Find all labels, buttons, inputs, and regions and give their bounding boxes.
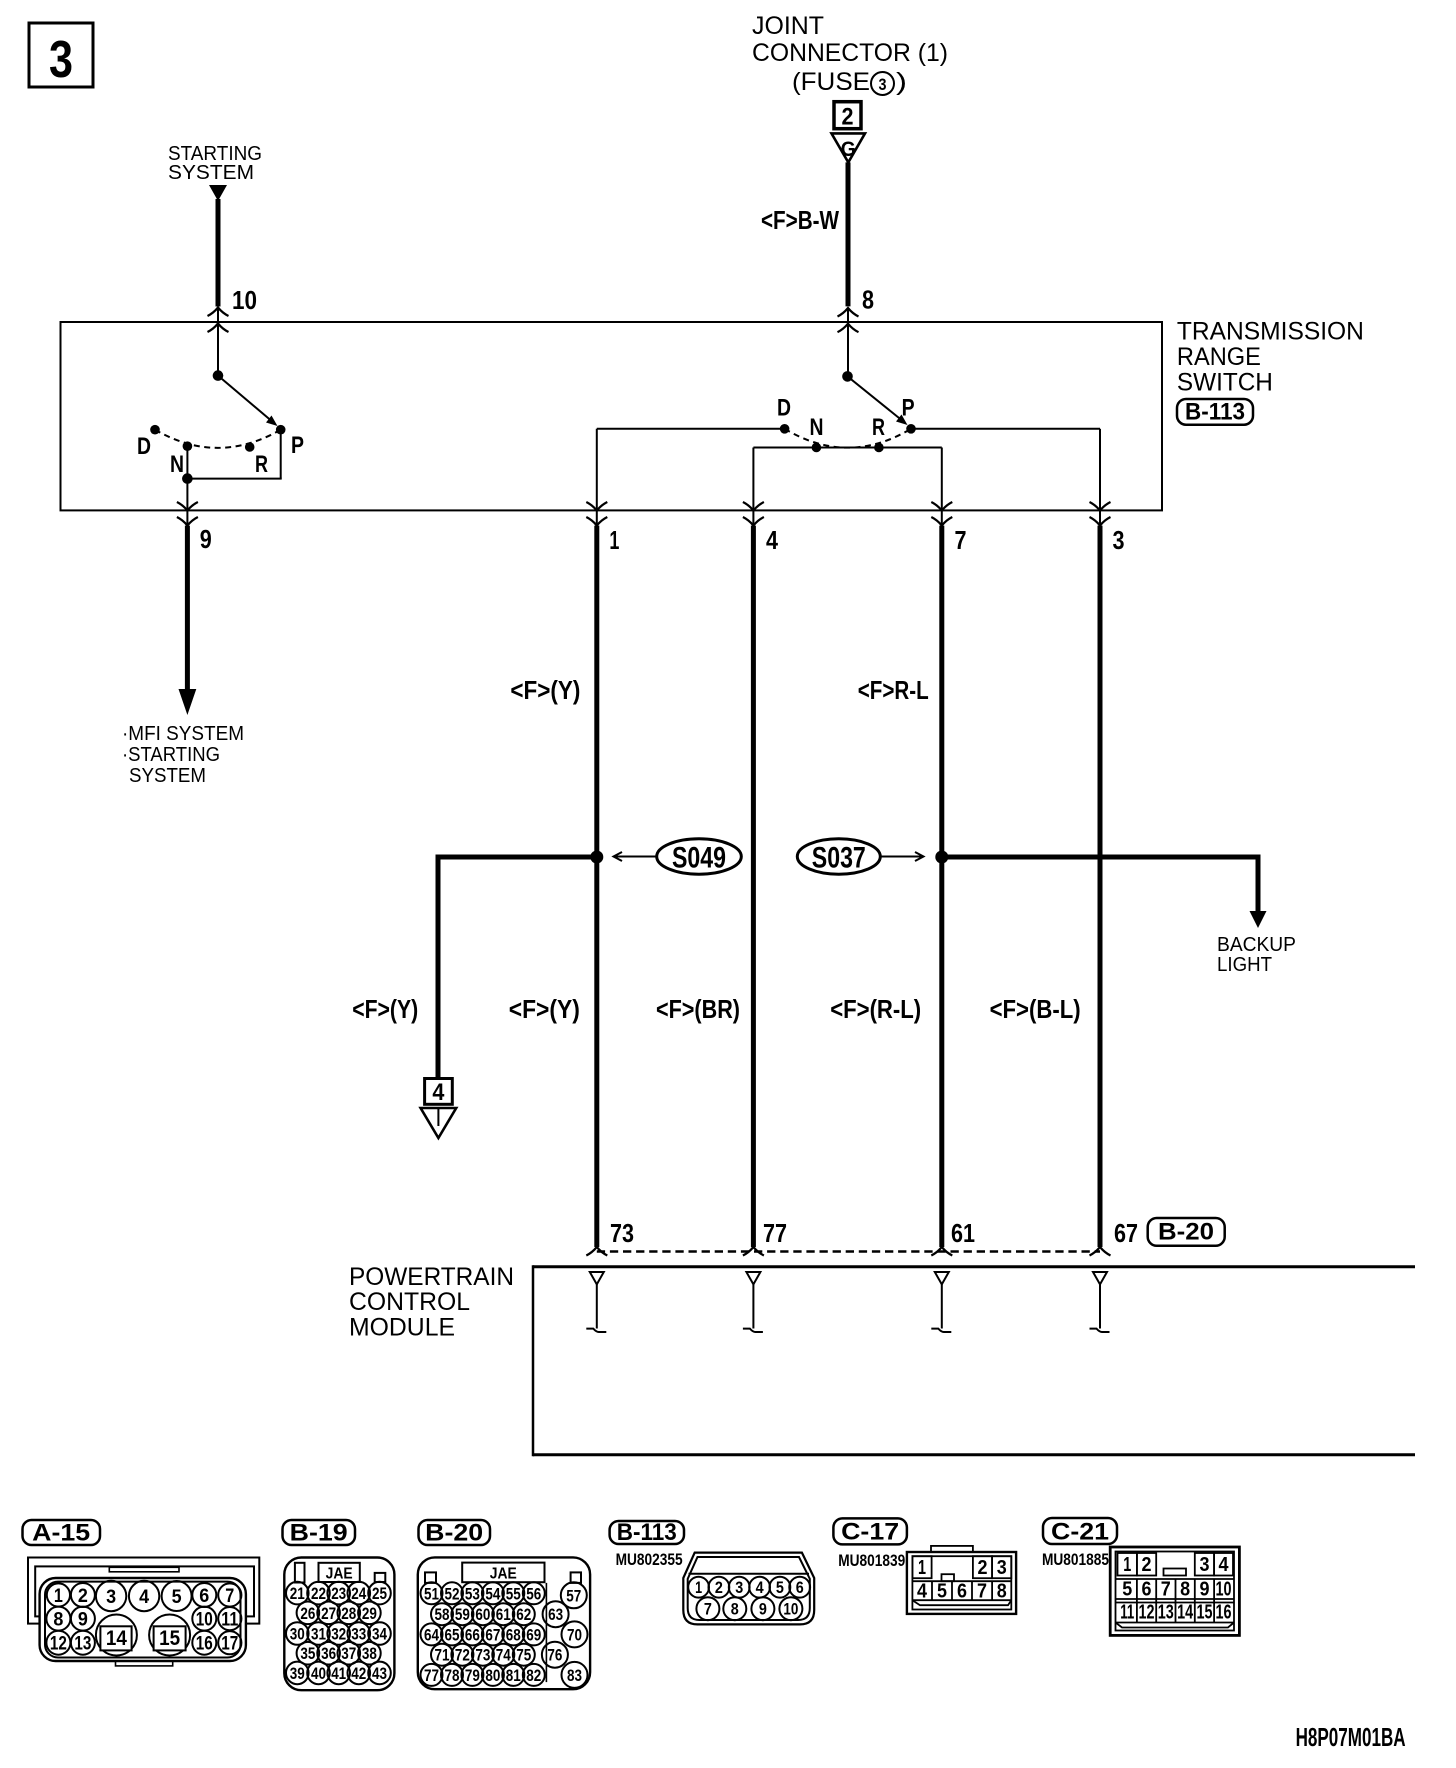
svg-text:B-19: B-19 [290, 1520, 348, 1547]
svg-text:1: 1 [1123, 1554, 1131, 1576]
A-15 pin 10 [192, 1607, 216, 1631]
svg-text:<F>(R-L): <F>(R-L) [830, 994, 921, 1024]
svg-text:8: 8 [862, 285, 874, 315]
svg-text:7: 7 [225, 1586, 234, 1607]
svg-text:2: 2 [978, 1557, 988, 1579]
svg-text:52: 52 [445, 1584, 460, 1603]
svg-text:R: R [255, 451, 268, 478]
svg-text:37: 37 [341, 1644, 356, 1663]
svg-text:15: 15 [1197, 1602, 1213, 1624]
svg-text:73: 73 [610, 1218, 634, 1248]
svg-text:3: 3 [1200, 1554, 1210, 1576]
A-15 pin 14 [96, 1615, 137, 1656]
svg-text:23: 23 [331, 1584, 346, 1603]
branch wire to backup light (thick) [942, 855, 1267, 929]
svg-text:11: 11 [221, 1609, 238, 1630]
ground symbol 4 [421, 1079, 457, 1139]
right switch: wire into switch [847, 308, 849, 376]
left switch contact P [276, 425, 286, 435]
A-15 pin 12 [46, 1631, 70, 1655]
ground triangle G [832, 133, 866, 162]
connector tag C-17 [833, 1518, 907, 1545]
wire end foot 73 [586, 1247, 607, 1256]
svg-text:4: 4 [1219, 1554, 1230, 1576]
svg-text:N: N [810, 414, 824, 441]
pin 10 terminal chevrons [208, 308, 229, 333]
svg-text:2: 2 [842, 104, 854, 131]
svg-text:·STARTING: ·STARTING [122, 744, 220, 766]
pin 4 terminal chevrons [743, 502, 764, 526]
wire P stem [280, 430, 282, 479]
left switch contact N [183, 441, 193, 451]
connector tag B-20 [419, 1520, 491, 1547]
pin 8 terminal chevrons [838, 308, 859, 332]
svg-text:<F>(B-L): <F>(B-L) [990, 994, 1081, 1024]
svg-text:3: 3 [49, 31, 73, 89]
svg-text:2: 2 [1142, 1554, 1152, 1576]
svg-text:36: 36 [321, 1644, 336, 1663]
svg-text:40: 40 [311, 1664, 326, 1683]
branch wire to ground 4 (thick) [438, 855, 597, 1079]
connector tag B-19 [283, 1520, 356, 1547]
svg-text:MU801839: MU801839 [838, 1551, 905, 1570]
svg-text:70: 70 [567, 1625, 582, 1644]
svg-text:JOINT: JOINT [752, 12, 824, 40]
svg-text:59: 59 [455, 1605, 470, 1624]
svg-text:3: 3 [106, 1587, 116, 1608]
node STARTING SYSTEM (label) [168, 143, 262, 184]
svg-text:7: 7 [955, 525, 967, 555]
svg-text:MU801885: MU801885 [1042, 1550, 1109, 1569]
pin 3 terminal chevrons [1090, 502, 1111, 526]
svg-text:MU802355: MU802355 [616, 1550, 683, 1569]
svg-text:31: 31 [311, 1625, 326, 1644]
svg-text:29: 29 [362, 1604, 377, 1623]
pin 9 terminal chevrons [177, 502, 198, 526]
svg-text:57: 57 [566, 1586, 581, 1605]
B-20 pin 63 [543, 1601, 569, 1627]
svg-text:5: 5 [1122, 1579, 1132, 1601]
svg-text:<F>(BR): <F>(BR) [656, 994, 740, 1024]
svg-text:8: 8 [1180, 1579, 1190, 1601]
svg-text:64: 64 [424, 1625, 439, 1644]
svg-text:24: 24 [351, 1584, 366, 1603]
svg-text:B-20: B-20 [1158, 1219, 1214, 1246]
right switch dashed arc [785, 429, 911, 448]
svg-text:BACKUP: BACKUP [1217, 934, 1296, 956]
connector tag A-15 [23, 1520, 101, 1547]
connector C-21 view [1110, 1547, 1239, 1635]
svg-text:7: 7 [704, 1600, 712, 1619]
svg-text:5: 5 [172, 1587, 182, 1608]
svg-text:1: 1 [609, 525, 619, 555]
left switch: wire from pin 10 into switch [217, 308, 219, 376]
connector B-19 view [284, 1558, 394, 1691]
component label JOINT CONNECTOR (1) (FUSE 3) [752, 12, 948, 96]
PCM internal pin 73 [586, 1272, 606, 1332]
A-15 pin 11 [218, 1607, 241, 1630]
svg-text:14: 14 [106, 1627, 127, 1650]
svg-text:56: 56 [526, 1584, 541, 1603]
frame number box 3 [29, 23, 93, 89]
svg-text:1: 1 [54, 1586, 63, 1607]
svg-text:15: 15 [159, 1627, 180, 1650]
svg-text:10: 10 [783, 1600, 798, 1619]
splice junction on wire 7 [935, 851, 948, 864]
svg-text:5: 5 [937, 1581, 947, 1603]
wire bus to pin 7 [941, 448, 943, 511]
A-15 pin 16 [192, 1631, 216, 1655]
wire D to pin 1 [597, 429, 785, 510]
svg-text:7: 7 [1161, 1579, 1171, 1601]
svg-text:28: 28 [341, 1604, 356, 1623]
wire end foot 61 [931, 1247, 952, 1256]
B-20 pin 83 [562, 1662, 588, 1688]
svg-text:68: 68 [506, 1625, 521, 1644]
svg-text:9: 9 [1200, 1579, 1210, 1601]
svg-text:35: 35 [300, 1644, 315, 1663]
A-15 pin 6 [192, 1583, 216, 1607]
A-15 pin 9 [71, 1607, 95, 1631]
svg-text:54: 54 [485, 1584, 500, 1603]
svg-text:9: 9 [78, 1609, 88, 1630]
svg-text:51: 51 [424, 1584, 439, 1603]
left switch pivot [213, 370, 224, 381]
svg-text:71: 71 [435, 1646, 450, 1665]
svg-text:60: 60 [475, 1605, 490, 1624]
PCM internal pin 61 [931, 1272, 951, 1332]
svg-text:D: D [777, 394, 791, 421]
svg-text:B-20: B-20 [425, 1520, 483, 1547]
svg-text:C-17: C-17 [841, 1519, 899, 1546]
svg-text:CONNECTOR (1): CONNECTOR (1) [752, 39, 948, 67]
svg-text:5: 5 [776, 1578, 784, 1597]
svg-text:7: 7 [977, 1581, 987, 1603]
A-15 pin 17 [218, 1631, 241, 1654]
wire N stem [186, 446, 188, 478]
svg-text:10: 10 [1216, 1579, 1232, 1601]
svg-text:1: 1 [918, 1557, 926, 1579]
wire bus to pin 4 [752, 448, 754, 511]
node MFI SYSTEM / STARTING SYSTEM (label) [122, 723, 244, 787]
svg-text:65: 65 [445, 1625, 460, 1644]
svg-text:33: 33 [351, 1625, 366, 1644]
component label TRANSMISSION RANGE SWITCH [1177, 318, 1364, 397]
A-15 pin 4 [129, 1581, 159, 1611]
svg-text:9: 9 [200, 524, 212, 554]
B-19 pins 39-43 [286, 1662, 391, 1685]
junction at N stem [182, 473, 193, 484]
svg-text:8: 8 [53, 1609, 63, 1630]
svg-text:A-15: A-15 [32, 1520, 90, 1547]
B-19 pins 21-25 [286, 1582, 391, 1605]
svg-text:32: 32 [331, 1625, 346, 1644]
svg-text:SYSTEM: SYSTEM [129, 765, 206, 787]
svg-text:81: 81 [506, 1666, 521, 1685]
arrow from starting system [209, 185, 227, 201]
right switch pivot [842, 371, 853, 382]
svg-text:72: 72 [455, 1646, 470, 1665]
svg-text:10: 10 [232, 285, 257, 315]
svg-text:<F>(Y): <F>(Y) [510, 675, 580, 705]
svg-text:22: 22 [311, 1584, 326, 1603]
svg-text:39: 39 [290, 1664, 305, 1683]
B-19 pins 30-34 [286, 1622, 391, 1645]
svg-text:S049: S049 [672, 842, 726, 875]
svg-text:6: 6 [1142, 1579, 1152, 1601]
svg-text:TRANSMISSION: TRANSMISSION [1177, 318, 1364, 346]
svg-text:53: 53 [465, 1584, 480, 1603]
svg-text:27: 27 [321, 1604, 336, 1623]
component label POWERTRAIN CONTROL MODULE [349, 1263, 514, 1342]
wire N-P link [187, 478, 281, 480]
wire to pin 9 [186, 479, 188, 525]
PCM internal pin 77 [743, 1272, 763, 1332]
svg-text:SYSTEM: SYSTEM [168, 162, 254, 184]
wire P to pin 3 [911, 429, 1100, 510]
B-113 pins 7-10 [696, 1597, 802, 1620]
right switch blade (to P) [848, 376, 908, 425]
pin 1 terminal chevrons [586, 502, 607, 526]
svg-text:G: G [841, 138, 856, 161]
splice junction on wire 1 [590, 851, 603, 864]
B-20 pins 64-69 [421, 1623, 545, 1645]
svg-text:MODULE: MODULE [349, 1313, 455, 1341]
wire 8 (thick) [846, 162, 851, 306]
svg-text:2: 2 [715, 1578, 723, 1597]
svg-text:(FUSE: (FUSE [792, 68, 870, 96]
A-15 pin 5 [162, 1581, 192, 1611]
svg-text:58: 58 [435, 1605, 450, 1624]
B-20 pin 57 [561, 1582, 587, 1608]
connector tag B-113 [1177, 399, 1253, 426]
B-20 pins 51-56 [421, 1582, 545, 1604]
svg-text:17: 17 [221, 1634, 238, 1655]
svg-text:POWERTRAIN: POWERTRAIN [349, 1263, 514, 1291]
PCM connector dashed line [597, 1250, 1100, 1253]
B-20 pin 76 [542, 1642, 568, 1668]
PCM internal pin 67 [1090, 1272, 1110, 1332]
svg-text:6: 6 [199, 1586, 209, 1607]
svg-text:JAE: JAE [326, 1566, 353, 1583]
svg-text:30: 30 [290, 1625, 305, 1644]
svg-text:N: N [170, 451, 184, 478]
right switch contact R [874, 443, 884, 453]
svg-text:8: 8 [731, 1600, 739, 1619]
wire N-R bus [753, 447, 941, 449]
svg-text:75: 75 [516, 1646, 531, 1665]
svg-text:16: 16 [1216, 1602, 1232, 1624]
svg-text:<F>R-L: <F>R-L [858, 675, 929, 705]
left switch blade (to P) [218, 376, 278, 426]
svg-text:61: 61 [951, 1218, 975, 1248]
wire pin7 to PCM 61 (thick) [939, 526, 944, 1247]
B-20 pins 77-82 [421, 1664, 545, 1686]
B-19 pins 35-38 [297, 1642, 381, 1665]
svg-text:JAE: JAE [490, 1566, 517, 1583]
svg-text:4: 4 [766, 525, 778, 555]
pin 7 terminal chevrons [931, 502, 952, 526]
svg-text:80: 80 [485, 1666, 500, 1685]
right switch contact P [906, 424, 916, 434]
svg-text:·MFI SYSTEM: ·MFI SYSTEM [122, 723, 244, 745]
A-15 pin 1 [47, 1583, 70, 1606]
svg-text:C-21: C-21 [1051, 1519, 1109, 1546]
svg-text:26: 26 [300, 1604, 315, 1623]
svg-text:R: R [872, 414, 885, 441]
left switch dashed arc [155, 430, 281, 448]
svg-text:61: 61 [496, 1605, 511, 1624]
svg-text:6: 6 [957, 1581, 967, 1603]
wire end foot 67 [1090, 1247, 1111, 1256]
wire to pin 10 (thick) [216, 199, 221, 307]
svg-text:67: 67 [485, 1625, 500, 1644]
connector tag C-21 [1043, 1518, 1117, 1546]
A-15 pin 8 [46, 1607, 70, 1631]
svg-text:13: 13 [1158, 1602, 1174, 1624]
B-20 pins 58-62 [431, 1603, 535, 1625]
B-113 pins 1-6 [688, 1577, 810, 1598]
svg-text:LIGHT: LIGHT [1217, 954, 1272, 976]
C-21 pin numbers [1120, 1554, 1231, 1624]
node BACKUP LIGHT (label) [1217, 934, 1296, 976]
svg-text:3: 3 [997, 1557, 1007, 1579]
svg-text:42: 42 [351, 1664, 366, 1683]
svg-text:9: 9 [759, 1600, 767, 1619]
svg-text:3: 3 [1113, 525, 1125, 555]
svg-text:P: P [902, 394, 915, 421]
svg-text:25: 25 [372, 1584, 387, 1603]
svg-text:<F>(Y): <F>(Y) [509, 994, 580, 1024]
splice S049 [614, 839, 742, 875]
connector tag B-113 [610, 1519, 684, 1546]
svg-text:66: 66 [465, 1625, 480, 1644]
joint connector pin 2 box [834, 102, 861, 131]
wire pin3 to PCM 67 (thick) [1098, 526, 1103, 1247]
svg-text:13: 13 [74, 1634, 91, 1655]
svg-text:82: 82 [526, 1666, 541, 1685]
right switch contact N [812, 443, 822, 453]
svg-text:12: 12 [50, 1634, 67, 1655]
wire from pin 9 (thick) [185, 526, 190, 690]
connector tag B-20 [1148, 1218, 1225, 1246]
svg-text:4: 4 [756, 1578, 764, 1597]
svg-text:): ) [896, 68, 907, 96]
svg-text:43: 43 [372, 1664, 387, 1683]
B-20 pins 71-75 [431, 1644, 535, 1666]
right switch contact D [780, 424, 790, 434]
svg-text:77: 77 [763, 1218, 787, 1248]
svg-text:76: 76 [547, 1646, 562, 1665]
svg-text:<F>B-W: <F>B-W [761, 205, 839, 235]
svg-text:CONTROL: CONTROL [349, 1288, 470, 1316]
svg-text:3: 3 [879, 75, 887, 94]
svg-text:4: 4 [917, 1581, 928, 1603]
A-15 pin 3 [96, 1581, 126, 1611]
svg-text:1: 1 [695, 1578, 702, 1597]
svg-text:55: 55 [506, 1584, 521, 1603]
splice S037 [797, 839, 923, 875]
svg-text:S037: S037 [812, 842, 866, 875]
connector B-113 view [683, 1553, 814, 1625]
B-20 pin 70 [562, 1621, 588, 1647]
A-15 pin 2 [71, 1583, 95, 1607]
svg-text:38: 38 [362, 1644, 377, 1663]
svg-text:<F>(Y): <F>(Y) [352, 994, 418, 1024]
svg-text:78: 78 [445, 1666, 460, 1685]
svg-text:63: 63 [548, 1605, 563, 1624]
svg-text:H8P07M01BA: H8P07M01BA [1296, 1722, 1406, 1752]
svg-text:73: 73 [475, 1646, 490, 1665]
A-15 pin 7 [218, 1583, 241, 1606]
svg-text:10: 10 [196, 1609, 213, 1630]
svg-text:16: 16 [196, 1634, 213, 1655]
svg-text:SWITCH: SWITCH [1177, 368, 1273, 396]
svg-text:77: 77 [424, 1666, 439, 1685]
C-17 pin numbers [917, 1557, 1007, 1603]
svg-text:11: 11 [1120, 1602, 1134, 1624]
svg-text:69: 69 [526, 1625, 541, 1644]
svg-text:34: 34 [372, 1625, 387, 1644]
TRANSMISSION RANGE SWITCH box B-113 [61, 322, 1163, 510]
left switch contact D [150, 425, 160, 435]
wire pin1 to PCM 73 (thick) [594, 526, 599, 1247]
wire end foot 77 [743, 1247, 764, 1256]
svg-text:D: D [137, 433, 151, 460]
svg-text:P: P [291, 432, 304, 459]
svg-text:74: 74 [496, 1646, 511, 1665]
svg-text:12: 12 [1139, 1602, 1155, 1624]
svg-text:83: 83 [567, 1666, 582, 1685]
B-19 pins 26-29 [297, 1602, 381, 1625]
left switch contact R [245, 442, 255, 452]
svg-text:B-113: B-113 [1185, 399, 1245, 426]
svg-text:4: 4 [139, 1587, 149, 1608]
svg-text:6: 6 [796, 1578, 804, 1597]
A-15 pin 13 [71, 1631, 95, 1655]
connector B-20 view [418, 1557, 590, 1689]
connector C-17 view [907, 1546, 1016, 1614]
svg-text:62: 62 [516, 1605, 531, 1624]
svg-text:14: 14 [1177, 1602, 1194, 1624]
POWERTRAIN CONTROL MODULE box [533, 1265, 1415, 1456]
svg-text:B-113: B-113 [617, 1519, 677, 1546]
svg-text:2: 2 [78, 1586, 88, 1607]
svg-text:79: 79 [465, 1666, 480, 1685]
wire pin4 to PCM 77 (thick) [751, 526, 756, 1247]
svg-text:67: 67 [1114, 1218, 1138, 1248]
svg-text:4: 4 [432, 1079, 445, 1106]
svg-text:3: 3 [735, 1578, 743, 1597]
svg-text:41: 41 [331, 1664, 346, 1683]
arrow to MFI system [179, 689, 197, 715]
svg-text:21: 21 [290, 1584, 305, 1603]
svg-text:8: 8 [997, 1581, 1007, 1603]
connector A-15 view [28, 1558, 259, 1666]
A-15 pin 15 [149, 1615, 190, 1656]
svg-text:RANGE: RANGE [1177, 343, 1261, 371]
